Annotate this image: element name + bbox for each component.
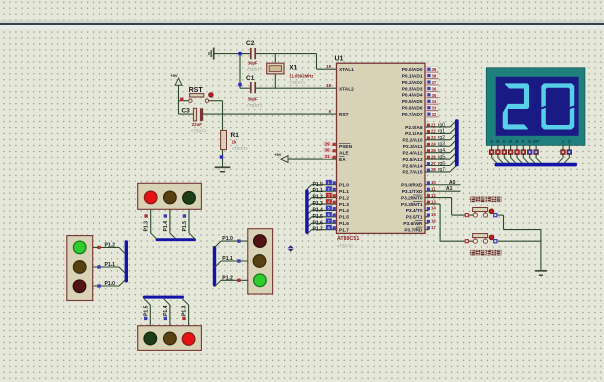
svg-text:P3.3/INT1: P3.3/INT1 bbox=[401, 202, 423, 208]
svg-text:P1.2: P1.2 bbox=[339, 195, 349, 201]
svg-text:P1.5: P1.5 bbox=[182, 221, 188, 232]
svg-text:15: 15 bbox=[431, 212, 436, 217]
svg-text:C2: C2 bbox=[246, 40, 255, 47]
svg-text:RST: RST bbox=[189, 87, 204, 94]
svg-text:37: 37 bbox=[432, 80, 437, 85]
svg-text:rg4: rg4 bbox=[438, 148, 445, 154]
svg-text:P1.4: P1.4 bbox=[163, 305, 169, 316]
svg-text:17: 17 bbox=[431, 225, 436, 230]
svg-text:B: B bbox=[496, 139, 499, 144]
svg-text:29: 29 bbox=[325, 141, 330, 146]
svg-text:P1.3: P1.3 bbox=[339, 202, 349, 208]
svg-text:rg7: rg7 bbox=[438, 167, 445, 173]
svg-text:35: 35 bbox=[432, 93, 437, 98]
svg-text:P2.5/A13: P2.5/A13 bbox=[402, 157, 422, 163]
svg-text:33: 33 bbox=[432, 106, 437, 111]
svg-text:DP: DP bbox=[533, 139, 539, 144]
svg-text:ALE: ALE bbox=[339, 150, 349, 156]
svg-text:C3: C3 bbox=[181, 107, 190, 114]
svg-text:EA: EA bbox=[339, 157, 346, 163]
svg-text:12: 12 bbox=[431, 193, 436, 198]
svg-text:14: 14 bbox=[431, 206, 436, 211]
svg-text:P1.2: P1.2 bbox=[105, 242, 116, 248]
svg-text:28: 28 bbox=[431, 167, 436, 172]
svg-text:P1.4: P1.4 bbox=[163, 221, 169, 232]
svg-text:1k: 1k bbox=[232, 140, 237, 145]
svg-text:A0: A0 bbox=[449, 180, 456, 186]
svg-text:P1.7: P1.7 bbox=[339, 228, 349, 234]
svg-text:23: 23 bbox=[431, 135, 436, 140]
svg-text:39: 39 bbox=[432, 67, 437, 72]
svg-text:P1.3: P1.3 bbox=[313, 201, 324, 207]
svg-text:+5V: +5V bbox=[170, 73, 178, 78]
svg-text:rg2: rg2 bbox=[438, 135, 445, 141]
svg-text:P0.0/AD0: P0.0/AD0 bbox=[402, 67, 423, 73]
svg-text:16: 16 bbox=[431, 219, 436, 224]
svg-text:A: A bbox=[490, 139, 493, 144]
svg-text:D: D bbox=[509, 139, 512, 144]
svg-text:38: 38 bbox=[432, 74, 437, 79]
svg-text:32: 32 bbox=[432, 112, 437, 117]
svg-text:AT89C51: AT89C51 bbox=[337, 236, 359, 242]
svg-text:P3.6/WR: P3.6/WR bbox=[403, 221, 423, 227]
svg-text:P2.7/A15: P2.7/A15 bbox=[402, 170, 422, 176]
svg-text:P1.0: P1.0 bbox=[105, 281, 116, 287]
svg-text:30: 30 bbox=[325, 148, 330, 153]
svg-text:P1.0: P1.0 bbox=[339, 183, 349, 189]
svg-text:P0.1/AD1: P0.1/AD1 bbox=[402, 73, 423, 79]
svg-text:P1.6: P1.6 bbox=[339, 221, 349, 227]
svg-text:P3.4/T0: P3.4/T0 bbox=[406, 208, 423, 214]
svg-text:XTAL1: XTAL1 bbox=[339, 67, 354, 73]
svg-text:24: 24 bbox=[431, 142, 436, 147]
svg-text:31: 31 bbox=[325, 154, 330, 159]
svg-text:13: 13 bbox=[431, 199, 436, 204]
svg-text:P1.0: P1.0 bbox=[222, 236, 233, 242]
svg-text:C1: C1 bbox=[246, 75, 255, 82]
svg-text:P2.6/A14: P2.6/A14 bbox=[402, 163, 422, 169]
svg-text:X1: X1 bbox=[289, 64, 297, 71]
svg-text:XTAL2: XTAL2 bbox=[339, 86, 354, 92]
svg-text:P1.5: P1.5 bbox=[339, 215, 349, 221]
svg-text:P1.2: P1.2 bbox=[313, 195, 324, 201]
svg-text:26: 26 bbox=[431, 154, 436, 159]
svg-text:<TEXT>: <TEXT> bbox=[232, 146, 248, 151]
svg-text:P1.1: P1.1 bbox=[339, 189, 349, 195]
svg-text:P2.1/A9: P2.1/A9 bbox=[405, 131, 423, 137]
svg-text:P2.2/A10: P2.2/A10 bbox=[402, 138, 422, 144]
svg-text:27: 27 bbox=[431, 161, 436, 166]
svg-text:F: F bbox=[522, 139, 525, 144]
svg-text:19: 19 bbox=[326, 64, 331, 69]
svg-text:PSEN: PSEN bbox=[339, 144, 353, 150]
svg-text:rg6: rg6 bbox=[438, 161, 445, 167]
svg-text:22uF: 22uF bbox=[192, 122, 202, 127]
svg-text:U1: U1 bbox=[335, 55, 344, 62]
svg-text:<TEXT>: <TEXT> bbox=[191, 129, 207, 134]
svg-text:P1.1: P1.1 bbox=[313, 188, 324, 194]
svg-text:P1.5: P1.5 bbox=[143, 305, 149, 316]
svg-text:rg1: rg1 bbox=[438, 129, 445, 135]
svg-text:P0.2/AD2: P0.2/AD2 bbox=[402, 80, 423, 86]
svg-text:R1: R1 bbox=[231, 132, 240, 139]
svg-text:P3.7/RD: P3.7/RD bbox=[404, 228, 423, 234]
svg-text:P1.1: P1.1 bbox=[105, 262, 116, 268]
svg-text:22: 22 bbox=[431, 129, 436, 134]
svg-text:P1.3: P1.3 bbox=[182, 305, 188, 316]
svg-text:C: C bbox=[503, 139, 506, 144]
svg-text:11.0592MHz: 11.0592MHz bbox=[289, 73, 313, 78]
svg-text:P0.7/AD7: P0.7/AD7 bbox=[402, 112, 423, 118]
svg-text:rg3: rg3 bbox=[438, 142, 445, 148]
svg-text:P0.5/AD5: P0.5/AD5 bbox=[402, 99, 423, 105]
svg-text:P2.0/A8: P2.0/A8 bbox=[405, 125, 423, 131]
svg-text:P0.6/AD6: P0.6/AD6 bbox=[402, 106, 423, 112]
svg-text:RST: RST bbox=[339, 112, 349, 118]
svg-text:P2.3/A11: P2.3/A11 bbox=[403, 144, 423, 150]
svg-text:<TEXT>: <TEXT> bbox=[289, 80, 305, 85]
svg-text:P1.1: P1.1 bbox=[222, 256, 233, 262]
svg-text:P1.0: P1.0 bbox=[313, 182, 324, 188]
svg-text:<TEXT>: <TEXT> bbox=[246, 103, 262, 108]
svg-text:P3.0/RXD: P3.0/RXD bbox=[401, 183, 423, 189]
svg-text:10: 10 bbox=[431, 180, 436, 185]
svg-text:18: 18 bbox=[326, 83, 331, 88]
svg-text:A1: A1 bbox=[446, 186, 453, 192]
svg-text:P1.5: P1.5 bbox=[313, 214, 324, 220]
svg-text:P3.1/TXD: P3.1/TXD bbox=[402, 189, 423, 195]
svg-text:P0.4/AD4: P0.4/AD4 bbox=[402, 93, 423, 99]
svg-text:21: 21 bbox=[431, 122, 436, 127]
svg-text:E: E bbox=[516, 139, 519, 144]
svg-text:rg5: rg5 bbox=[438, 154, 445, 160]
svg-text:P1.2: P1.2 bbox=[222, 275, 233, 281]
svg-text:<TEXT>: <TEXT> bbox=[337, 243, 353, 248]
svg-text:P1.4: P1.4 bbox=[313, 207, 324, 213]
svg-text:+5V: +5V bbox=[274, 152, 282, 157]
svg-text:30pF: 30pF bbox=[248, 60, 258, 65]
svg-text:<TEXT>: <TEXT> bbox=[246, 67, 262, 72]
svg-text:34: 34 bbox=[432, 99, 437, 104]
svg-text:9: 9 bbox=[329, 109, 332, 114]
svg-text:P1.7: P1.7 bbox=[313, 227, 324, 233]
svg-text:P3.2/INT0: P3.2/INT0 bbox=[401, 195, 423, 201]
svg-text:P1.3: P1.3 bbox=[144, 221, 150, 232]
svg-text:P0.3/AD3: P0.3/AD3 bbox=[402, 86, 423, 92]
svg-text:rg0: rg0 bbox=[438, 122, 445, 128]
svg-text:P3.5/T1: P3.5/T1 bbox=[406, 215, 423, 221]
svg-text:P2.4/A12: P2.4/A12 bbox=[402, 150, 422, 156]
svg-text:11: 11 bbox=[431, 186, 436, 191]
svg-text:P1.6: P1.6 bbox=[313, 220, 324, 226]
svg-text:36: 36 bbox=[432, 86, 437, 91]
svg-text:25: 25 bbox=[431, 148, 436, 153]
svg-text:30pF: 30pF bbox=[248, 97, 258, 102]
svg-text:P1.4: P1.4 bbox=[339, 208, 349, 214]
